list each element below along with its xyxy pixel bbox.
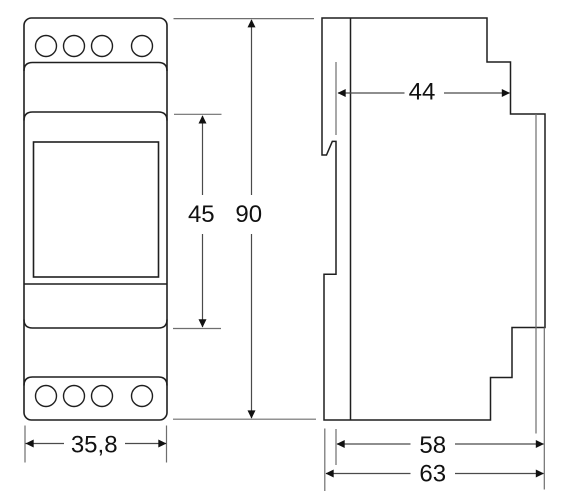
- svg-text:45: 45: [188, 201, 215, 228]
- dimension line 58: [337, 443, 411, 445]
- arrow 35,8 right: [158, 440, 166, 448]
- projection line top (90 top extension): [174, 18, 315, 20]
- extension line 35,8 left: [24, 426, 26, 463]
- top terminal circle 4: [132, 36, 153, 57]
- extension line 44 left: [335, 62, 337, 135]
- bottom terminal circle 1: [36, 386, 57, 407]
- arrow 44 right: [502, 89, 510, 97]
- svg-text:35,8: 35,8: [71, 431, 118, 458]
- arrow 45 bottom: [199, 319, 207, 327]
- bottom terminal circle 4: [132, 386, 153, 407]
- extension line 45 bottom: [173, 328, 221, 330]
- side view profile: [322, 18, 545, 420]
- arrow 58 right: [536, 440, 544, 448]
- arrow 35,8 left: [26, 440, 34, 448]
- bottom terminal circle 3: [92, 386, 113, 407]
- top terminal circle 3: [92, 36, 113, 57]
- dimension line 90: [251, 20, 253, 195]
- svg-text:90: 90: [235, 201, 262, 228]
- front display window: [34, 142, 159, 277]
- arrow 63 left: [326, 470, 334, 478]
- dimension line 44: [338, 92, 405, 94]
- extension line 58 left: [335, 429, 337, 465]
- extension line 63 left: [324, 429, 326, 492]
- svg-text:63: 63: [419, 461, 446, 488]
- svg-text:44: 44: [409, 79, 436, 106]
- front straight divider under display: [24, 283, 167, 285]
- side view inner cover edge line: [535, 114, 537, 434]
- arrow 90 bottom: [248, 410, 256, 418]
- front display section bottom rounded edge: [24, 320, 167, 329]
- extension line 35,8 right: [166, 426, 168, 463]
- bottom terminal circle 2: [64, 386, 85, 407]
- extension line 45 top: [174, 113, 222, 115]
- dimension line 35,8: [26, 443, 65, 445]
- top terminal circle 2: [64, 36, 85, 57]
- projection line bottom (90 bottom extension): [173, 418, 316, 420]
- arrow 63 right: [536, 470, 544, 478]
- front divider top section: [24, 63, 167, 72]
- side view inner face line: [350, 18, 352, 420]
- arrow 45 top: [199, 115, 207, 123]
- front view outer body: [24, 18, 167, 420]
- front divider display section top: [24, 112, 167, 121]
- top terminal circle 1: [36, 36, 57, 57]
- arrow 90 top: [248, 19, 256, 27]
- dimension line 63: [326, 473, 411, 475]
- arrow 58 left: [337, 440, 345, 448]
- svg-text:58: 58: [419, 432, 446, 459]
- dimension line 45: [202, 116, 204, 195]
- arrow 44 left: [338, 89, 346, 97]
- front divider bottom terminal section: [24, 377, 167, 386]
- extension line 58/63 right: [543, 328, 545, 490]
